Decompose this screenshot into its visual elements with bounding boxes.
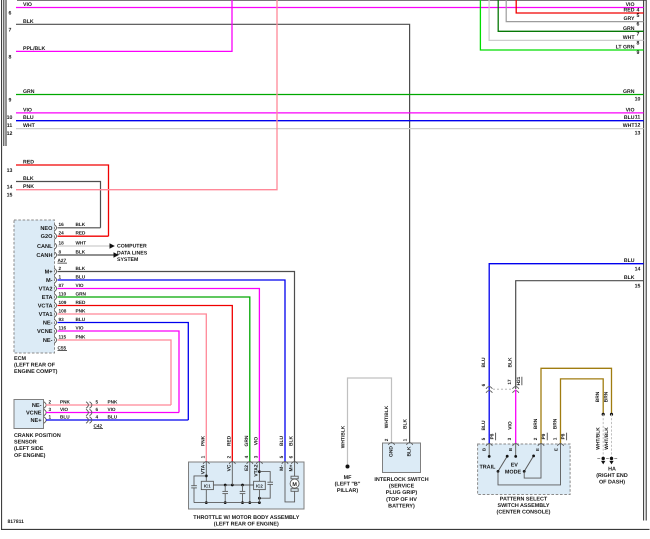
switch TRAIL [488, 444, 490, 456]
wire M+ stub [294, 462, 296, 476]
svg-text:NEO: NEO [40, 226, 53, 232]
svg-text:108: 108 [59, 308, 67, 313]
svg-text:8: 8 [637, 40, 640, 46]
interlock box pin chevrons [388, 443, 394, 445]
svg-text:VIO: VIO [76, 283, 84, 288]
svg-text:3: 3 [49, 407, 52, 412]
wire ECM 24 RED [58, 235, 109, 237]
svg-text:LT GRN: LT GRN [616, 45, 635, 51]
wire ECM 110 GRN (to throttle E2) [58, 297, 250, 462]
svg-text:M+: M+ [45, 270, 54, 276]
wire 6 / right 4 VIO horizontal [16, 7, 644, 9]
svg-text:RED: RED [76, 300, 87, 305]
capacitor C-A left [194, 476, 206, 486]
svg-text:817811: 817811 [8, 519, 25, 525]
svg-text:1: 1 [552, 437, 557, 440]
wire 13 RED (to ECM pin 24) [16, 165, 109, 236]
wire M- loop [285, 462, 295, 502]
wire ECM 116 VIO (to crank sensor 6) [58, 331, 180, 413]
wire crank VCNE 3/6 VIO [46, 412, 179, 414]
svg-text:(CENTER CONSOLE): (CENTER CONSOLE) [497, 510, 551, 516]
svg-text:PILLAR): PILLAR) [337, 488, 358, 494]
svg-text:RED: RED [23, 160, 34, 166]
svg-text:9: 9 [9, 98, 12, 104]
wire 7 BLK (to interlock switch) [16, 24, 410, 443]
svg-text:VCNE: VCNE [37, 329, 53, 335]
svg-text:E: E [535, 448, 540, 451]
svg-text:1: 1 [402, 438, 407, 441]
svg-text:14: 14 [7, 185, 13, 191]
svg-text:MODE: MODE [505, 469, 522, 475]
svg-text:BLK: BLK [508, 357, 514, 368]
svg-text:BRN: BRN [595, 391, 601, 402]
svg-text:3: 3 [507, 437, 512, 440]
svg-text:6: 6 [9, 11, 12, 17]
svg-text:BLU: BLU [76, 317, 86, 322]
wire E2 stub [249, 462, 251, 503]
svg-text:VCNE: VCNE [26, 411, 42, 417]
svg-text:GRN: GRN [623, 26, 635, 32]
svg-text:VIO: VIO [23, 107, 32, 113]
wire ECM 109 RED (to throttle VC) [58, 306, 233, 463]
svg-text:TRAIL: TRAIL [480, 464, 497, 470]
svg-text:WHT/BLK: WHT/BLK [604, 427, 610, 450]
svg-text:GRN: GRN [244, 435, 250, 446]
svg-text:B: B [482, 448, 487, 451]
wire ECM 87 VIO (to throttle VTA2) [58, 289, 260, 463]
svg-text:6: 6 [481, 383, 486, 386]
svg-text:110: 110 [59, 291, 67, 296]
svg-text:BLK: BLK [402, 419, 408, 430]
svg-text:ETA: ETA [42, 295, 53, 301]
svg-text:BATTERY): BATTERY) [388, 503, 415, 509]
wire WHT/BLK ground loop (MF to interlock GND) [348, 378, 392, 467]
svg-text:BLU: BLU [279, 436, 285, 447]
wire ECM 8 BLK (to data lines) [58, 254, 114, 256]
svg-text:ENGINE COMPT): ENGINE COMPT) [14, 369, 58, 375]
capacitor C-C [242, 485, 244, 491]
svg-text:VTA1: VTA1 [39, 312, 53, 318]
svg-text:THROTTLE W/ MOTOR BODY ASSEMBL: THROTTLE W/ MOTOR BODY ASSEMBLY [193, 515, 299, 521]
svg-text:8: 8 [9, 54, 12, 60]
svg-text:SYSTEM: SYSTEM [117, 257, 138, 263]
svg-text:12: 12 [7, 131, 13, 137]
wire middle rail [213, 484, 253, 486]
svg-text:GRN: GRN [23, 89, 35, 95]
throttle w/ motor body assembly box [189, 462, 305, 509]
wire bottom rail [194, 502, 259, 504]
inline connector C42 chevrons [86, 402, 92, 423]
inline connector chevrons on BLU wire [486, 387, 492, 389]
svg-text:VIO: VIO [508, 421, 514, 430]
svg-text:4: 4 [96, 414, 99, 419]
wire EV MODE output to E pin [524, 444, 541, 478]
svg-text:NE-: NE- [32, 403, 42, 409]
ECM box (dashed) [14, 220, 55, 353]
svg-text:M-: M- [279, 465, 285, 471]
svg-text:PNK: PNK [23, 184, 34, 190]
svg-text:GRN: GRN [76, 291, 87, 296]
svg-text:6: 6 [637, 22, 640, 28]
svg-text:PNK: PNK [200, 435, 206, 446]
svg-text:WHT: WHT [23, 123, 36, 129]
svg-text:BLK: BLK [289, 436, 295, 447]
svg-text:M+: M+ [289, 464, 295, 471]
svg-text:BLK: BLK [407, 446, 413, 457]
left harness rail [3, 0, 5, 146]
svg-text:P8: P8 [561, 433, 566, 439]
switch EV MODE [515, 444, 517, 456]
transducer crank position sensor pins [26, 399, 118, 424]
svg-text:P8: P8 [490, 433, 495, 439]
wire right 6 GRY (from top) [506, 0, 643, 22]
throttle box pin chevrons [203, 462, 298, 464]
svg-text:3: 3 [253, 455, 258, 458]
svg-text:11: 11 [635, 114, 641, 120]
right harness rail [643, 0, 645, 521]
svg-text:BLU: BLU [60, 414, 70, 419]
svg-text:2: 2 [59, 266, 62, 271]
svg-text:CRANK POSITION: CRANK POSITION [14, 433, 61, 439]
wire WHT/BLK to HA 2 [611, 414, 613, 458]
computer data lines arrow 1 [110, 243, 115, 248]
wire BRN (TRAIL E to HA) [561, 379, 604, 444]
svg-text:E2: E2 [244, 465, 250, 471]
computer data lines arrow 2 [114, 252, 119, 257]
svg-text:DATA LINES: DATA LINES [117, 250, 148, 256]
wire ECM 2 BLK (to throttle M+) [58, 272, 295, 463]
crank position sensor box [14, 400, 44, 429]
wire VTA2 stub [258, 462, 260, 481]
wire crank NE- 2/5 PNK [46, 404, 171, 406]
svg-text:BLU: BLU [76, 274, 86, 279]
throttle internal: VTA stub [205, 462, 207, 481]
svg-text:VIO: VIO [76, 325, 84, 330]
svg-text:IC1: IC1 [204, 483, 211, 488]
svg-text:MF: MF [344, 475, 352, 481]
svg-text:WHT/BLK: WHT/BLK [384, 405, 390, 428]
svg-text:(SERVICE: (SERVICE [389, 484, 415, 490]
svg-text:WHT/BLK: WHT/BLK [596, 427, 602, 450]
svg-text:VIO: VIO [60, 407, 68, 412]
svg-text:(LEFT REAR OF ENGINE): (LEFT REAR OF ENGINE) [214, 521, 279, 527]
svg-text:ECM: ECM [14, 356, 26, 362]
wire 14 BLK (to ECM pin 16) [16, 182, 101, 228]
svg-text:PNK: PNK [108, 399, 119, 404]
svg-text:BLK: BLK [624, 275, 635, 281]
svg-text:(TOP OF HV: (TOP OF HV [386, 497, 417, 503]
svg-text:PNK: PNK [60, 399, 71, 404]
svg-text:9: 9 [637, 50, 640, 56]
wire right 9 LT GRN (from top) [480, 0, 643, 50]
top page border [17, 0, 646, 2]
svg-text:E: E [554, 448, 559, 451]
svg-text:16: 16 [59, 222, 65, 227]
svg-text:2: 2 [226, 455, 231, 458]
svg-text:VIO: VIO [626, 107, 635, 113]
svg-text:IC2: IC2 [256, 483, 263, 488]
svg-text:VTA2: VTA2 [39, 287, 53, 293]
svg-text:M: M [292, 482, 297, 488]
svg-text:GRY: GRY [623, 16, 635, 22]
svg-text:RED: RED [624, 8, 635, 14]
svg-text:PATTERN SELECT: PATTERN SELECT [500, 497, 548, 503]
svg-text:BLU: BLU [481, 420, 487, 431]
svg-text:5: 5 [96, 399, 99, 404]
svg-text:BLU: BLU [108, 414, 118, 419]
svg-text:6: 6 [289, 455, 294, 458]
wire 10 / right 11 VIO horizontal [16, 112, 644, 114]
svg-text:G2O: G2O [41, 234, 53, 240]
wire WHT/BLK to HA 1 [602, 414, 604, 458]
ground connector MF [346, 465, 350, 469]
svg-text:(LEFT "B": (LEFT "B" [335, 482, 361, 488]
svg-text:NE-: NE- [43, 321, 53, 327]
svg-text:GND: GND [389, 446, 395, 457]
svg-text:8: 8 [59, 249, 62, 254]
svg-text:(LEFT REAR OF: (LEFT REAR OF [14, 362, 56, 368]
svg-text:93: 93 [59, 317, 65, 322]
pattern switch pin chevrons [486, 444, 492, 446]
op ECM pin names and brackets [36, 222, 86, 344]
svg-text:6: 6 [96, 407, 99, 412]
svg-text:24: 24 [59, 231, 65, 236]
svg-text:PNK: PNK [76, 308, 87, 313]
svg-text:11: 11 [7, 123, 13, 129]
wire IC2 bottom lead [258, 490, 260, 503]
svg-text:109: 109 [59, 300, 67, 305]
wire right 15 BLK (to inline connector H21) [516, 281, 644, 389]
svg-text:P9: P9 [541, 433, 546, 439]
bottom page border [1, 528, 650, 530]
svg-text:HA: HA [608, 466, 616, 472]
wire right 5 RED (from top) [516, 0, 643, 13]
svg-text:13: 13 [7, 168, 13, 174]
svg-text:VC: VC [227, 464, 233, 471]
wire 9 / right 10 GRN horizontal [16, 94, 644, 96]
svg-text:RED: RED [226, 435, 232, 446]
svg-text:10: 10 [7, 115, 13, 121]
svg-text:5: 5 [279, 455, 284, 458]
wire BRN (EV MODE E to HA) [541, 368, 612, 444]
svg-text:BLK: BLK [23, 19, 34, 25]
svg-text:87: 87 [59, 283, 65, 288]
wire TRAIL output to E pin [498, 444, 561, 485]
wire crank NE+ 1/4 BLU [46, 419, 188, 421]
svg-text:H21: H21 [516, 376, 521, 385]
svg-text:OF ENGINE): OF ENGINE) [14, 453, 46, 459]
svg-text:2: 2 [384, 438, 389, 441]
svg-text:BLK: BLK [76, 222, 86, 227]
svg-text:B: B [508, 448, 513, 451]
svg-text:14: 14 [635, 267, 641, 273]
wire right 8 WHT (from top) [489, 0, 643, 40]
inline connector chevrons on BLK/VIO wire H21 [513, 387, 519, 389]
svg-text:PNK: PNK [76, 334, 87, 339]
svg-text:CANH: CANH [36, 253, 52, 259]
splice dots to WHT/BLK [602, 413, 605, 416]
svg-text:18: 18 [59, 240, 65, 245]
op-amp IC1 [201, 481, 213, 489]
wire ECM 18 WHT (to data lines) [58, 245, 110, 247]
svg-text:WHT: WHT [623, 123, 636, 129]
wire ECM 108 PNK (to throttle VTA) [58, 314, 207, 462]
wire ECM 1 BLU (to throttle M-) [58, 280, 286, 462]
capacitor C-D right [259, 472, 270, 482]
svg-text:BLU: BLU [624, 258, 635, 264]
svg-text:BLU: BLU [23, 115, 34, 121]
pattern select switch assembly box (dashed) [478, 444, 570, 495]
svg-text:2: 2 [49, 399, 52, 404]
wire ECM 115 PNK (to crank sensor 5) [58, 340, 172, 405]
svg-text:A27: A27 [58, 258, 67, 263]
svg-text:BRN: BRN [604, 391, 610, 402]
svg-text:4: 4 [244, 455, 249, 458]
svg-text:BLK: BLK [76, 266, 86, 271]
svg-text:115: 115 [59, 334, 67, 339]
svg-text:VTA: VTA [201, 464, 207, 474]
svg-text:BRN: BRN [552, 418, 558, 429]
wire right 14 BLU (to pattern select switch) [489, 264, 643, 444]
dashed link between inline connector halves [493, 388, 512, 390]
svg-text:C42: C42 [94, 423, 103, 428]
svg-text:2: 2 [533, 437, 538, 440]
svg-text:WHT: WHT [623, 35, 636, 41]
svg-text:BLU: BLU [624, 115, 635, 121]
motor M [291, 476, 298, 479]
svg-text:1: 1 [49, 414, 52, 419]
svg-text:5: 5 [481, 437, 486, 440]
svg-text:PPL/BLK: PPL/BLK [23, 46, 45, 52]
svg-text:BLK: BLK [76, 249, 86, 254]
wire ECM 93 BLU (to crank sensor 4) [58, 323, 189, 421]
svg-text:VIO: VIO [23, 2, 32, 8]
svg-text:NE-: NE- [43, 338, 53, 344]
wire 12 / right 13 WHT horizontal [16, 128, 644, 130]
svg-text:5: 5 [637, 13, 640, 19]
svg-text:7: 7 [637, 31, 640, 37]
svg-text:12: 12 [635, 122, 641, 128]
HA terminal dots and arrows [602, 457, 605, 460]
svg-text:15: 15 [635, 284, 641, 290]
wire right 7 GRN (from top) [498, 0, 643, 31]
svg-text:EV: EV [511, 463, 519, 469]
svg-text:C55: C55 [58, 345, 67, 350]
svg-text:1: 1 [200, 455, 205, 458]
svg-text:PLUG GRIP): PLUG GRIP) [386, 490, 418, 496]
svg-text:VTA2: VTA2 [254, 464, 260, 476]
op-amp IC2 [254, 481, 266, 489]
svg-text:116: 116 [59, 325, 67, 330]
wire VIO (connector to EV MODE pin 3) [515, 390, 517, 445]
svg-text:WHT/BLK: WHT/BLK [340, 425, 346, 448]
wire 11 / right 12 BLU horizontal [16, 120, 644, 122]
svg-text:(RIGHT END: (RIGHT END [596, 473, 628, 479]
wire VC stub [231, 462, 233, 485]
wire 15 PNK (up off page) [16, 0, 277, 190]
svg-text:RED: RED [76, 231, 87, 236]
svg-text:INTERLOCK SWITCH: INTERLOCK SWITCH [374, 477, 428, 483]
wire ECM 16 BLK [58, 227, 101, 229]
svg-text:13: 13 [635, 130, 641, 136]
svg-text:BLU: BLU [481, 357, 487, 368]
svg-text:COMPUTER: COMPUTER [117, 244, 147, 250]
svg-text:VIO: VIO [108, 407, 116, 412]
svg-text:10: 10 [635, 97, 641, 103]
svg-text:NE+: NE+ [30, 418, 42, 424]
svg-text:BLK: BLK [23, 176, 34, 182]
interlock switch box [383, 443, 421, 473]
svg-text:1: 1 [59, 274, 62, 279]
svg-text:WHT: WHT [76, 240, 87, 245]
svg-text:SENSOR: SENSOR [14, 440, 37, 446]
wire 8 PPL/BLK (up off page) [16, 0, 232, 51]
svg-text:VIO: VIO [253, 437, 259, 446]
svg-text:GRN: GRN [623, 89, 635, 95]
svg-text:M-: M- [46, 278, 53, 284]
svg-text:17: 17 [507, 379, 512, 385]
svg-text:BRN: BRN [533, 418, 539, 429]
capacitor C-B [224, 485, 226, 491]
svg-text:15: 15 [7, 193, 13, 199]
svg-text:VCTA: VCTA [38, 304, 53, 310]
left page border [1, 0, 3, 529]
svg-text:7: 7 [9, 27, 12, 33]
svg-text:CANL: CANL [37, 244, 53, 250]
svg-text:OF DASH): OF DASH) [599, 480, 625, 486]
svg-text:(LEFT SIDE: (LEFT SIDE [14, 446, 44, 452]
wire IC1 bottom lead [205, 490, 207, 503]
svg-text:SWITCH ASSEMBLY: SWITCH ASSEMBLY [497, 503, 549, 509]
